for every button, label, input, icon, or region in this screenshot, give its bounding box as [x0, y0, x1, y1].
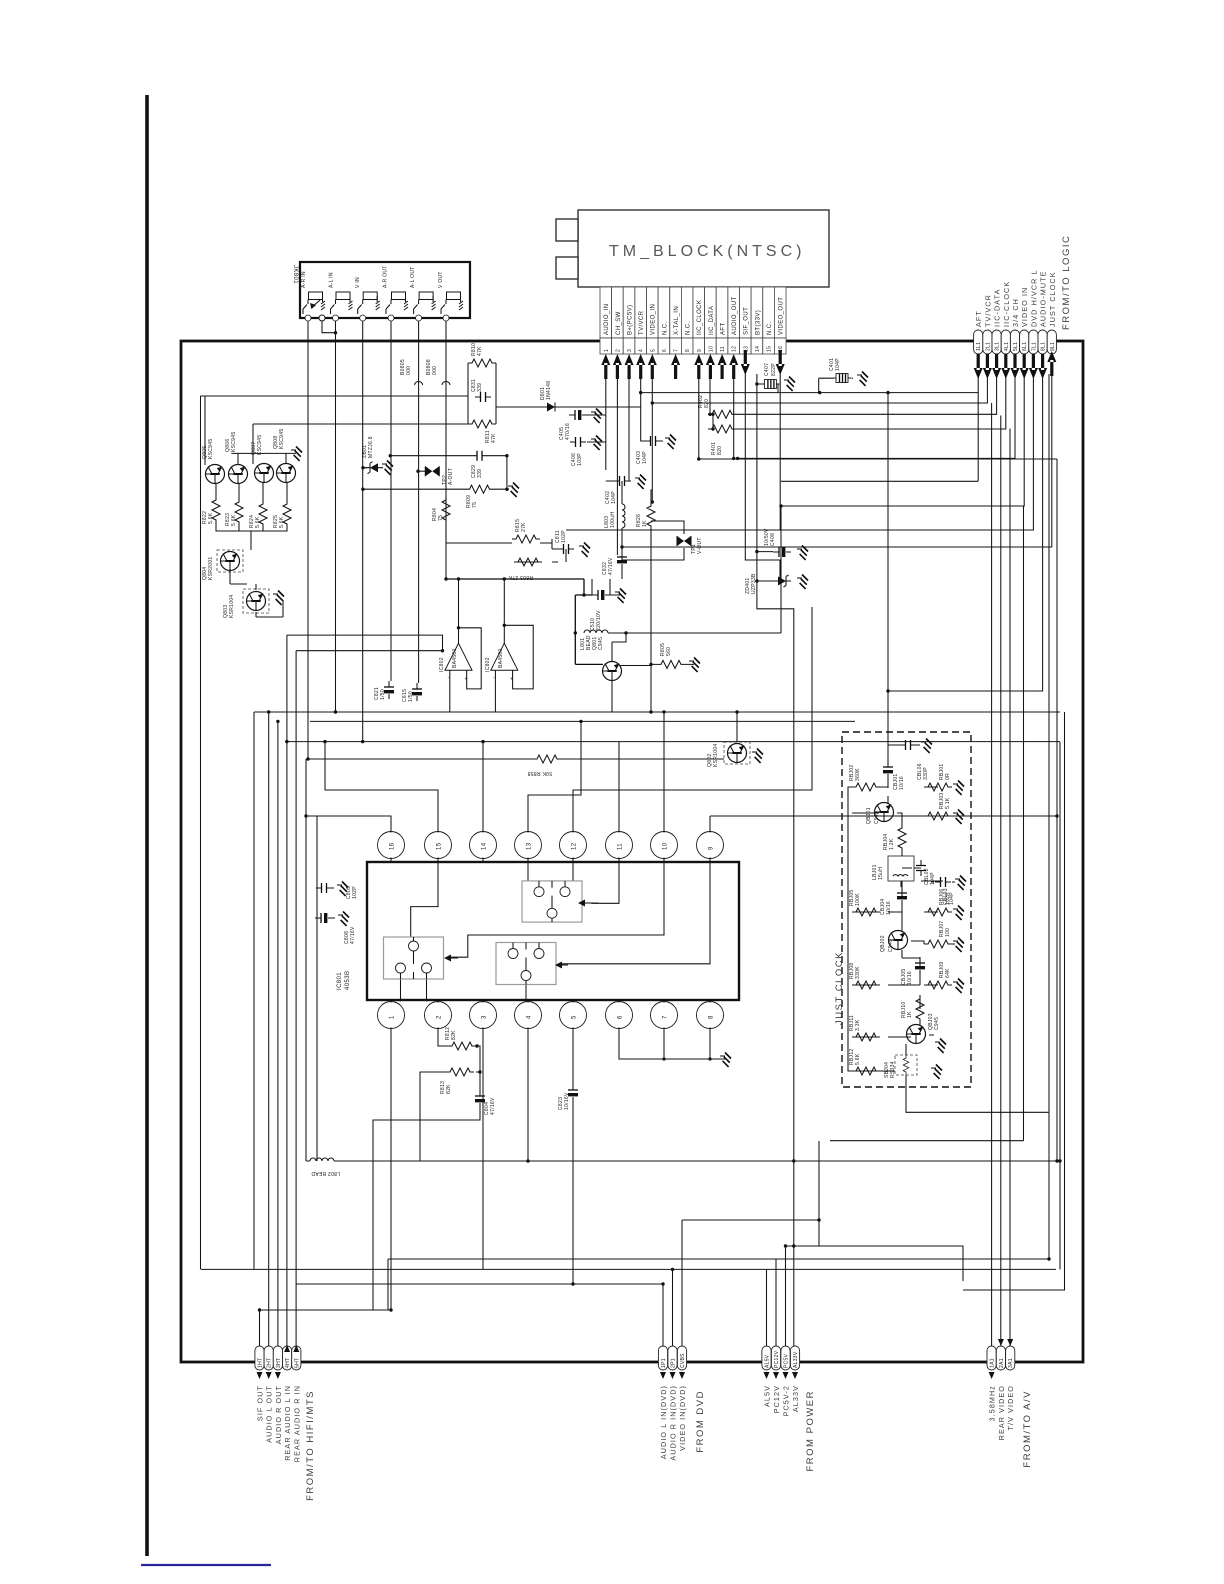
svg-text:C407: C407 — [764, 363, 770, 376]
transistor Q801 — [603, 662, 622, 681]
svg-text:15: 15 — [437, 842, 443, 850]
jumper B0805 000 — [400, 359, 423, 385]
svg-text:1K: 1K — [642, 520, 648, 527]
switch C select arrow — [562, 964, 568, 966]
svg-text:KSC945: KSC945 — [208, 439, 214, 459]
footer rule — [141, 1564, 271, 1566]
svg-text:VIDEO IN(DVD): VIDEO IN(DVD) — [678, 1385, 687, 1451]
svg-text:3: 3 — [482, 1015, 488, 1019]
R810/C831/R811/C829 column ties — [363, 363, 641, 562]
transistor QBJ01 C945 — [866, 803, 894, 825]
staircase 4L1 to R401 — [708, 374, 1006, 429]
svg-text:10/16: 10/16 — [886, 901, 892, 915]
ground at RBJ09 — [953, 979, 964, 993]
svg-text:100: 100 — [945, 928, 951, 937]
signal arrow out of pin 13 — [741, 350, 750, 375]
IC801 pin 4 — [515, 1000, 542, 1029]
logic connector pin 3L1 IIC-DATA — [992, 289, 1002, 354]
svg-text:VIDEO_OUT: VIDEO_OUT — [779, 297, 785, 335]
svg-text:7: 7 — [674, 349, 680, 352]
wire bus y742 — [285, 741, 1060, 743]
TM pin 9 IIC_CLOCK — [693, 287, 705, 354]
IC801 pin 12 — [560, 832, 587, 863]
C808/C809 stubs — [315, 816, 335, 1161]
inductor L801 BEAD + transistor Q801 C945 — [580, 630, 608, 650]
resistor R824 5.6K — [249, 500, 267, 528]
svg-text:JUST CLOCK: JUST CLOCK — [834, 951, 845, 1025]
resistor RBJ08 330K — [849, 962, 880, 989]
svg-text:AFT: AFT — [721, 322, 727, 335]
svg-text:360K: 360K — [855, 768, 861, 781]
inductor L802 BEAD — [310, 1158, 340, 1176]
capacitor C406 103P — [570, 437, 586, 466]
svg-text:10: 10 — [708, 346, 714, 352]
svg-text:10/50V: 10/50V — [764, 528, 770, 546]
TM pin 11 AFT — [716, 287, 728, 354]
resistor R815 27K — [512, 519, 540, 543]
test point TP1 V-OUT — [677, 536, 703, 554]
C510/Q801 region ties — [592, 579, 610, 595]
signal arrow into pin 5 — [648, 354, 657, 379]
svg-text:N.C.: N.C. — [686, 321, 692, 335]
svg-text:5.1K: 5.1K — [945, 797, 951, 809]
rail to R811 column — [253, 424, 468, 464]
connector pin 1P1 AUDIO L IN(DVD) — [658, 1346, 668, 1459]
svg-text:CVBS: CVBS — [680, 1353, 686, 1368]
resistor R825 5.6K — [273, 500, 291, 528]
svg-text:1P1: 1P1 — [661, 1358, 667, 1368]
capacitor C401 104P — [829, 358, 851, 383]
svg-text:KSC945: KSC945 — [257, 435, 263, 455]
wire pin13 SIF down — [745, 374, 780, 580]
connector pin 4HT REAR AUDIO L IN — [283, 1346, 293, 1461]
transistor Q805 KSC945 — [202, 439, 225, 484]
POWER risers — [767, 1246, 820, 1346]
resistor R805 560 — [657, 643, 685, 669]
svg-text:47/16V: 47/16V — [490, 1097, 496, 1115]
capacitor CBJ06 330P — [900, 740, 929, 780]
ground at RBJ01 — [953, 781, 964, 795]
TM pin 15 N.C. — [763, 287, 775, 354]
rail from left bus to R810 column — [201, 396, 469, 1269]
svg-text:MTZJ6.8: MTZJ6.8 — [368, 436, 374, 458]
wire R858 row — [308, 758, 724, 760]
ground at SBJ04 — [931, 1065, 942, 1079]
svg-text:3A1: 3A1 — [1008, 1358, 1014, 1368]
svg-text:C945: C945 — [888, 939, 894, 952]
svg-text:9: 9 — [697, 349, 703, 352]
IC801 pin 6 — [606, 1000, 633, 1029]
TM pin 10 IIC_DATA — [705, 287, 717, 354]
jack A-L OUT — [410, 266, 436, 321]
wire thick mid bus y579 — [445, 578, 584, 580]
jack A-L IN — [329, 272, 353, 321]
TM pin 6 N.C. — [658, 287, 670, 354]
op-amp IC802 BA4560 (a) — [439, 643, 472, 683]
switch B select arrow — [451, 957, 458, 959]
svg-text:AUDIO_IN: AUDIO_IN — [604, 303, 610, 335]
svg-text:102P: 102P — [352, 886, 358, 899]
svg-text:C408: C408 — [770, 533, 776, 546]
ground at C808 — [338, 912, 349, 926]
resistor RBJ07 100 — [924, 920, 952, 948]
svg-text:6: 6 — [662, 349, 668, 352]
svg-text:JK801: JK801 — [292, 265, 298, 284]
resistor RBJ09 64K — [924, 961, 952, 989]
arrow into logic pin 4L1 — [1001, 354, 1010, 379]
capacitor C407 822P — [755, 363, 779, 389]
switch A select arrow — [585, 902, 598, 904]
svg-text:FROM DVD: FROM DVD — [695, 1390, 706, 1453]
wire pin12 column to C407 — [641, 374, 979, 393]
ground at C510 — [615, 589, 626, 603]
svg-text:100K: 100K — [855, 893, 861, 906]
svg-text:TM_BLOCK(NTSC): TM_BLOCK(NTSC) — [609, 243, 805, 260]
resistor R810 47K — [468, 343, 496, 367]
logic connector pin 5L1 3/4 CH — [1010, 298, 1020, 354]
ground at Q802 — [752, 749, 763, 763]
svg-text:000: 000 — [406, 366, 412, 375]
svg-text:C945: C945 — [598, 637, 604, 650]
IC801 pin 2 — [425, 1000, 452, 1029]
svg-text:100uH: 100uH — [610, 512, 616, 528]
svg-text:AUDIO R IN(DVD): AUDIO R IN(DVD) — [669, 1385, 678, 1461]
svg-text:VIDEO_IN: VIDEO_IN — [651, 304, 657, 335]
TM pin 14 BT(33V) — [751, 287, 763, 354]
DVD risers — [663, 1220, 682, 1346]
transistor Q807 KSC945 — [251, 435, 274, 483]
ground at C403 — [665, 435, 676, 449]
svg-text:IC802: IC802 — [485, 657, 491, 672]
signal arrow into pin 2 — [613, 354, 622, 379]
ground at C406 — [591, 436, 602, 450]
pin5 to L803/R826 — [622, 481, 652, 579]
TM pin 5 VIDEO_IN — [647, 287, 659, 354]
capacitor C408 10/50V — [764, 528, 791, 557]
staircase 8L1 to JUST CLOCK — [888, 374, 1043, 745]
wire Q805-Q808 emitter to resistor chain — [216, 483, 287, 550]
IC801 pin 15 — [425, 832, 452, 863]
IC801 pin 7 — [651, 1000, 678, 1029]
capacitor C821 1/50 — [374, 681, 394, 700]
svg-text:2: 2 — [615, 349, 621, 352]
connector pin 2A1 REAR VIDEO — [996, 1346, 1006, 1440]
svg-text:KSC945: KSC945 — [231, 432, 237, 452]
svg-text:13: 13 — [527, 842, 533, 850]
svg-text:27K: 27K — [521, 522, 527, 532]
svg-text:104P: 104P — [642, 451, 648, 464]
IC801 pin 14 — [470, 832, 497, 863]
zener ZD401 UZP33B — [745, 573, 791, 594]
TM pin 13 SIF_OUT — [740, 287, 752, 354]
long risers to A/V — [992, 403, 1010, 1346]
jack V IN — [355, 277, 380, 321]
staircase 5L1 — [699, 374, 1057, 1161]
svg-text:5HT: 5HT — [294, 1358, 300, 1368]
svg-text:4: 4 — [527, 1015, 533, 1019]
transistor QBJ03 C945 — [907, 1013, 941, 1043]
wire C401 stub — [819, 378, 853, 392]
svg-text:470/16: 470/16 — [565, 423, 571, 440]
analog switch A inside IC801 — [522, 881, 582, 922]
svg-text:AL33V: AL33V — [793, 1351, 799, 1368]
transistor Q802 KSR1004 — [707, 742, 750, 767]
svg-text:A-R OUT: A-R OUT — [383, 265, 389, 288]
svg-text:REAR AUDIO R IN: REAR AUDIO R IN — [292, 1385, 301, 1462]
resistor R826 1K — [636, 502, 655, 530]
svg-text:L802 BEAD: L802 BEAD — [311, 1170, 340, 1176]
svg-text:330P: 330P — [923, 767, 929, 780]
connector pin 2P1 AUDIO R IN(DVD) — [668, 1346, 678, 1461]
svg-text:REAR AUDIO L IN: REAR AUDIO L IN — [283, 1385, 292, 1461]
svg-text:AL5V: AL5V — [763, 1385, 772, 1407]
HIFI risers — [260, 635, 297, 1346]
svg-text:8: 8 — [709, 1015, 715, 1019]
svg-text:A-OUT: A-OUT — [448, 468, 454, 485]
svg-text:6L1: 6L1 — [1022, 342, 1028, 351]
wire bus y712 — [254, 712, 1060, 1269]
logic connector pin 6L1 VIDEO IN — [1020, 287, 1030, 354]
connector pin 1A1 3.58MHz — [987, 1346, 997, 1421]
TM pin 7 X-TAL_IN — [670, 287, 682, 354]
svg-text:1L1: 1L1 — [976, 342, 982, 351]
logic connector pin 1L1 AFT — [974, 310, 984, 354]
ground at Q803 — [273, 591, 284, 605]
jumper SBJ04 RS334 — [884, 1055, 917, 1078]
svg-text:103P: 103P — [577, 453, 583, 466]
ground at QBJ03 — [935, 1039, 946, 1053]
ground at CBJ06 — [921, 739, 932, 753]
resistor R809 75 — [466, 485, 494, 508]
svg-text:47/16V: 47/16V — [608, 557, 614, 575]
logic connector pin 2L1 TV/VCR — [983, 294, 993, 354]
svg-text:3/4 CH: 3/4 CH — [1011, 298, 1020, 327]
svg-text:5: 5 — [572, 1015, 578, 1019]
transistor Q808 KSC945 — [273, 429, 296, 483]
svg-text:BA4560: BA4560 — [452, 648, 458, 668]
svg-text:IIC-CLOCK: IIC-CLOCK — [1002, 281, 1011, 327]
connector pin AL5V AL5V — [762, 1346, 772, 1407]
svg-text:FROM POWER: FROM POWER — [805, 1390, 816, 1472]
svg-text:3.3K: 3.3K — [855, 1019, 861, 1031]
IC801 pin 10 — [651, 832, 678, 863]
svg-text:KSR1004: KSR1004 — [713, 743, 719, 767]
capacitor C829 339 — [471, 451, 488, 478]
capacitor C804 47/16V — [475, 1090, 496, 1115]
svg-text:220/10V: 220/10V — [596, 610, 602, 631]
ground at IC801 pins 6-8 — [619, 1028, 725, 1060]
test point TP2 A-OUT — [418, 466, 454, 485]
svg-text:820: 820 — [717, 446, 723, 455]
TM pin 2 CH_SW — [612, 287, 624, 354]
svg-text:9: 9 — [709, 846, 715, 850]
svg-text:5.6K: 5.6K — [231, 514, 237, 526]
TM pin 3 B+(PC5V) — [623, 287, 635, 354]
svg-text:PC5V-2: PC5V-2 — [782, 1385, 791, 1416]
svg-text:82K: 82K — [446, 1084, 452, 1094]
capacitor C402 104P — [605, 476, 630, 504]
svg-text:15uH: 15uH — [878, 867, 884, 880]
svg-text:TV/VCR: TV/VCR — [983, 294, 992, 327]
right edge verticals — [963, 712, 1065, 1290]
capacitor C815 1/50 — [402, 683, 422, 702]
resistor RBJ10 1K — [901, 995, 924, 1023]
jack JK801 pin 2 — [319, 315, 325, 321]
connector pin 3HT AUDIO R OUT — [273, 1346, 283, 1444]
TM pin1-5 column stubs — [587, 374, 663, 555]
connector pin CVBS VIDEO IN(DVD) — [677, 1346, 687, 1451]
resistor R804 75 — [432, 496, 450, 524]
resistor R813 82K — [440, 1068, 474, 1094]
TM pin 1 AUDIO_IN — [600, 287, 612, 354]
capacitor C809 102P — [316, 883, 358, 899]
zener ZB01 MTZJ6.8 — [362, 436, 383, 474]
svg-text:5.6K: 5.6K — [279, 516, 285, 528]
svg-text:102P: 102P — [561, 530, 567, 543]
ground at C408 — [797, 546, 808, 560]
svg-text:47/16V: 47/16V — [350, 926, 356, 944]
arrow into logic pin 6L1 — [1020, 354, 1029, 379]
op-amp input feeds — [287, 635, 443, 651]
ground near Q808 — [291, 447, 302, 461]
svg-text:10/16: 10/16 — [899, 776, 905, 790]
svg-text:RS334: RS334 — [890, 1061, 896, 1078]
capacitor C403 104P — [636, 436, 661, 464]
signal arrow into pin 4 — [636, 354, 645, 379]
svg-text:339: 339 — [477, 469, 483, 478]
svg-text:C945: C945 — [934, 1017, 940, 1030]
svg-text:X-TAL_IN: X-TAL_IN — [674, 306, 680, 335]
svg-text:000: 000 — [432, 366, 438, 375]
JUST CLOCK internal wires — [848, 745, 955, 1087]
capacitor C832 47/16V — [602, 551, 627, 575]
ground at C405 — [591, 409, 602, 423]
ground at C809 — [337, 882, 348, 896]
svg-text:AUDIO L OUT: AUDIO L OUT — [265, 1385, 274, 1443]
connector pin PC5V PC5V-2 — [781, 1346, 791, 1416]
wires around Q801 — [575, 579, 603, 664]
svg-text:AUDIO R OUT: AUDIO R OUT — [274, 1385, 283, 1444]
svg-text:FROM/TO LOGIC: FROM/TO LOGIC — [1061, 235, 1072, 330]
inductor L803 100uH — [604, 504, 625, 528]
logic connector pin 4L1 IIC-CLOCK — [1001, 281, 1011, 354]
IC801 top pin wires — [306, 607, 812, 833]
svg-text:10/16V: 10/16V — [564, 1092, 570, 1110]
transistor Q803 KSR1004 — [223, 589, 269, 618]
svg-text:7L1: 7L1 — [1031, 342, 1037, 351]
svg-text:11: 11 — [618, 843, 624, 850]
capacitor C510 220/10V — [590, 590, 610, 631]
arrow into logic pin 3L1 — [992, 354, 1001, 379]
IC801 pin 5 — [560, 1000, 587, 1029]
resistor RBJ04 1.2K — [883, 824, 906, 852]
arrow out of logic pin 9L1 — [1047, 351, 1056, 376]
op-amp IC802 BA4560 (b) — [485, 643, 518, 683]
svg-text:2L1: 2L1 — [985, 342, 991, 351]
svg-text:3.58MHz: 3.58MHz — [988, 1385, 997, 1421]
svg-text:IC802: IC802 — [439, 657, 445, 672]
IC IC801 4053B body — [337, 862, 739, 1000]
IC801 internal routing — [401, 859, 711, 1002]
svg-text:5.6K: 5.6K — [855, 1053, 861, 1065]
svg-text:104P: 104P — [835, 358, 841, 371]
IC801 pin 16 — [378, 832, 405, 863]
svg-text:A-R IN: A-R IN — [301, 271, 307, 288]
ground at CBL03 — [955, 876, 966, 890]
svg-text:102K: 102K — [945, 892, 951, 905]
signal arrow into pin 7 — [671, 354, 680, 379]
arrow into logic pin 8L1 — [1038, 354, 1047, 379]
IC801 pin 13 — [515, 832, 542, 863]
resistor R402 820 — [698, 395, 736, 418]
svg-text:TV/VCR: TV/VCR — [639, 310, 645, 335]
ground at RBJ07 — [953, 938, 964, 952]
ground at ZD401 — [797, 575, 808, 589]
resistor R401 820 — [708, 425, 736, 455]
arrow into logic pin 1L1 — [974, 354, 983, 379]
svg-text:5L1: 5L1 — [1013, 342, 1019, 351]
wire Q802 collector to logic — [736, 712, 738, 742]
transistor Q806 KSC945 — [225, 432, 248, 484]
resistor RBJ02 360K — [849, 764, 880, 791]
svg-text:64K: 64K — [945, 968, 951, 978]
arrow into logic pin 2L1 — [983, 354, 992, 379]
connector pin AL33V AL33V — [790, 1346, 800, 1412]
svg-text:A-L IN: A-L IN — [329, 272, 335, 288]
svg-text:4L1: 4L1 — [1004, 342, 1010, 351]
staircase 7L1 — [566, 374, 1033, 530]
IC801 pin 3 — [470, 1000, 497, 1029]
signal arrow into pin 9 — [694, 354, 703, 379]
svg-text:12: 12 — [572, 842, 578, 850]
resistor RBJ05 100K — [849, 889, 880, 916]
svg-text:KSR1004: KSR1004 — [229, 594, 235, 618]
svg-text:47K: 47K — [491, 433, 497, 443]
svg-text:12: 12 — [732, 346, 738, 352]
signal arrow into pin 11 — [718, 354, 727, 379]
capacitor CBJ04 10/16 — [880, 887, 907, 915]
IC801 bottom pin wires — [373, 1028, 573, 1311]
ground at C811 — [579, 543, 590, 557]
svg-text:PC12V: PC12V — [774, 1350, 780, 1368]
capacitor C405 470/16 — [559, 410, 587, 440]
sheet edge line — [145, 95, 149, 1556]
svg-text:560: 560 — [666, 647, 672, 656]
capacitor C808 47/16V — [315, 913, 356, 944]
svg-text:5.6K: 5.6K — [255, 516, 261, 528]
svg-text:6: 6 — [618, 1015, 624, 1019]
filter LBJ01 15uH — [872, 856, 914, 881]
svg-text:8: 8 — [685, 349, 691, 352]
staircase 1L1-AFT — [641, 374, 979, 481]
jack V OUT — [438, 271, 463, 321]
svg-text:10/16: 10/16 — [907, 971, 913, 985]
svg-text:1/50: 1/50 — [408, 691, 414, 702]
svg-text:IC801: IC801 — [337, 972, 343, 990]
logic connector pin 9L1 JUST CLOCK — [1047, 271, 1057, 354]
svg-text:2A1: 2A1 — [999, 1358, 1005, 1368]
svg-text:330K: 330K — [855, 966, 861, 979]
svg-text:15: 15 — [767, 346, 773, 352]
signal arrow into pin 12 — [729, 354, 738, 379]
svg-text:4: 4 — [639, 349, 645, 352]
svg-text:A-L OUT: A-L OUT — [410, 266, 416, 288]
svg-text:0R: 0R — [945, 773, 951, 780]
svg-text:3HT: 3HT — [276, 1358, 282, 1368]
svg-text:KSC945: KSC945 — [279, 429, 285, 449]
jumper B0808 000 — [426, 359, 450, 385]
svg-text:75: 75 — [438, 515, 444, 521]
